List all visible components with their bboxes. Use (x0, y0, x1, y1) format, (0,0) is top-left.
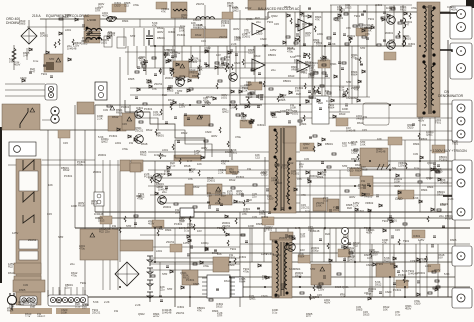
svg-text:47K: 47K (350, 254, 355, 258)
warning triangle (320, 267, 325, 271)
warning triangle (56, 58, 61, 62)
svg-text:D612Q601: D612Q601 (305, 60, 312, 67)
svg-text:D613: D613 (8, 271, 15, 275)
svg-text:FB601PC601: FB601PC601 (445, 214, 454, 221)
component box (182, 270, 198, 285)
wire h (240, 243, 470, 245)
wire h (95, 211, 470, 213)
component box (173, 61, 189, 77)
svg-text:100K: 100K (440, 203, 446, 207)
wire h (140, 234, 245, 236)
wire v (204, 212, 206, 247)
driver coils (403, 18, 406, 28)
comb wire (357, 5, 359, 46)
svg-text:22u: 22u (70, 262, 75, 266)
page edge bar (0, 127, 2, 283)
svg-text:400V: 400V (434, 268, 440, 272)
wire h (150, 261, 470, 263)
svg-text:125V: 125V (270, 48, 276, 52)
transistor (158, 196, 167, 205)
svg-text:5.6K: 5.6K (330, 42, 336, 46)
svg-text:5.6K: 5.6K (313, 70, 319, 74)
svg-text:FB601: FB601 (283, 79, 291, 83)
comb wire (285, 12, 287, 46)
wire v (134, 171, 136, 228)
wire h (240, 85, 360, 87)
svg-text:T901: T901 (80, 281, 87, 285)
svg-text:DENOMINATOR: DENOMINATOR (438, 94, 464, 98)
svg-text:100K5.6K: 100K5.6K (230, 103, 236, 110)
comb wire (371, 244, 373, 297)
svg-text:GND: GND (395, 197, 403, 201)
wire v (47, 130, 49, 297)
junction dots (189, 104, 191, 106)
wire h (8, 164, 142, 166)
wire v (94, 105, 96, 212)
svg-text:1N4148: 1N4148 (94, 212, 104, 216)
svg-text:PC601: PC601 (64, 174, 73, 178)
label chip (112, 4, 126, 12)
svg-text:0.1u: 0.1u (414, 166, 420, 170)
comb wire (335, 228, 337, 262)
connector CN A (450, 6, 472, 39)
svg-text:Q601: Q601 (342, 285, 349, 289)
svg-text:125VC620: 125VC620 (351, 148, 358, 155)
svg-text:2SC51: 2SC51 (351, 86, 360, 90)
relay coil box (95, 82, 107, 100)
svg-text:R612: R612 (181, 131, 188, 135)
svg-text:470u: 470u (133, 3, 139, 7)
component box (120, 160, 130, 171)
strap box innards (46, 62, 54, 70)
wire v (174, 16, 176, 61)
small ic mid (180, 208, 194, 217)
svg-text:L601: L601 (156, 249, 162, 253)
comb wire (294, 12, 296, 46)
svg-text:0.470.1u: 0.470.1u (164, 169, 170, 176)
wire v (264, 5, 266, 126)
svg-text:T901: T901 (382, 219, 389, 223)
wire h (40, 18, 268, 20)
wire h (245, 62, 310, 64)
svg-text:2.2KL601: 2.2KL601 (333, 205, 339, 212)
wire v (299, 161, 301, 212)
label chip (100, 216, 112, 224)
coil N (23, 160, 34, 170)
svg-text:D605: D605 (335, 285, 342, 289)
svg-text:5.6K: 5.6K (402, 269, 408, 273)
CN pins (51, 107, 59, 115)
transistor (176, 78, 185, 87)
svg-text:C33: C33 (232, 172, 237, 176)
wire v (309, 218, 311, 264)
svg-text:5.6K: 5.6K (413, 196, 419, 200)
svg-text:400VR618: 400VR618 (78, 201, 85, 208)
diode column D90x (147, 256, 153, 302)
wire v (254, 46, 256, 95)
svg-text:L601400V: L601400V (324, 298, 330, 305)
svg-text:IC601: IC601 (168, 30, 176, 34)
svg-text:Q602: Q602 (138, 312, 145, 316)
label chip (222, 12, 233, 19)
wire v (26, 48, 28, 60)
wire v (45, 19, 47, 54)
svg-text:10K: 10K (197, 162, 202, 166)
svg-text:ZD601: ZD601 (417, 271, 426, 275)
svg-text:D605: D605 (364, 253, 371, 257)
transformer T902 (270, 232, 293, 240)
svg-text:T901: T901 (368, 17, 375, 21)
svg-text:470u: 470u (411, 6, 417, 10)
component box (131, 160, 143, 171)
svg-text:R22: R22 (239, 114, 244, 118)
svg-text:R604400V: R604400V (153, 312, 160, 317)
svg-text:470u: 470u (275, 110, 281, 114)
component box (327, 199, 339, 212)
svg-text:16VC33: 16VC33 (342, 141, 347, 148)
relay switch lever (20, 108, 28, 128)
comb wire (415, 244, 417, 297)
wire h (330, 130, 470, 132)
svg-text:100K: 100K (248, 224, 254, 228)
svg-text:125V2.2K: 125V2.2K (353, 201, 359, 208)
comb wire (133, 28, 135, 46)
svg-text:16V: 16V (272, 239, 277, 243)
svg-text:L601: L601 (317, 32, 323, 36)
svg-text:47K: 47K (301, 193, 306, 197)
component box (209, 195, 232, 205)
comb wire (321, 46, 323, 97)
svg-text:470u470u: 470u470u (204, 100, 210, 107)
svg-text:R22: R22 (325, 232, 330, 236)
svg-text:R604: R604 (122, 19, 129, 23)
svg-text:125V400V: 125V400V (179, 216, 185, 223)
svg-text:R612: R612 (63, 168, 70, 172)
svg-text:2SC51: 2SC51 (28, 238, 37, 242)
svg-text:BALANCED RECOLOR AC: BALANCED RECOLOR AC (258, 7, 300, 11)
svg-text:R22: R22 (247, 198, 252, 202)
comb wire (426, 244, 428, 297)
svg-text:400V: 400V (394, 184, 400, 188)
comb wire (163, 28, 165, 46)
svg-text:1W: 1W (361, 179, 365, 183)
svg-text:PC601: PC601 (398, 273, 407, 277)
svg-text:PC601: PC601 (109, 134, 118, 138)
svg-text:2.2K: 2.2K (104, 300, 110, 304)
svg-text:Q602T901: Q602T901 (266, 225, 273, 232)
svg-text:400V: 400V (157, 30, 163, 34)
svg-text:Q602: Q602 (271, 14, 278, 18)
comb wire (321, 12, 323, 46)
svg-text:0.47: 0.47 (136, 194, 142, 198)
coil N (23, 192, 34, 202)
svg-text:STR: STR (167, 287, 172, 291)
filter cap C15 (146, 30, 153, 46)
wire h (5, 83, 45, 85)
svg-text:100K2.2K: 100K2.2K (97, 114, 103, 121)
svg-text:0.47: 0.47 (326, 99, 332, 103)
label chip (152, 220, 164, 228)
transistor (229, 73, 238, 82)
wire v (267, 12, 269, 19)
wire v (154, 161, 156, 262)
svg-text:R604: R604 (427, 185, 434, 189)
wire v (339, 46, 341, 112)
svg-text:DHOMW: DHOMW (6, 21, 20, 25)
wire h (360, 168, 470, 170)
label chip (336, 118, 348, 126)
svg-text:T901: T901 (230, 247, 237, 251)
wire v (119, 171, 121, 262)
wire h (195, 276, 455, 278)
bus stair-step (125, 100, 232, 160)
label chip (384, 52, 396, 60)
wire h (150, 269, 240, 271)
bridge rectifier D901 (21, 28, 37, 44)
component box (185, 184, 193, 195)
svg-text:ZD601: ZD601 (221, 19, 230, 23)
svg-text:D612470u: D612470u (71, 271, 78, 278)
comb wire (163, 46, 165, 75)
op-amp (252, 59, 265, 71)
inline coil 2 (196, 17, 214, 19)
svg-text:FB601PC601: FB601PC601 (439, 155, 448, 162)
svg-text:C15: C15 (303, 146, 308, 150)
comb wire (384, 5, 386, 46)
wire h (75, 227, 470, 229)
comb wire (190, 46, 192, 68)
svg-text:215 A: 215 A (32, 14, 41, 18)
wire h (95, 217, 470, 219)
svg-text:T901R604: T901R604 (328, 103, 335, 110)
svg-text:STR: STR (130, 34, 135, 38)
label chip (170, 244, 182, 252)
svg-text:16V: 16V (197, 229, 202, 233)
svg-text:125V: 125V (183, 241, 189, 245)
label chip (318, 60, 330, 68)
svg-text:T901: T901 (354, 14, 361, 18)
svg-text:470uC620: 470uC620 (414, 299, 421, 306)
connector CN E (452, 246, 472, 266)
wire v (339, 170, 341, 212)
component box (77, 102, 94, 114)
wire h (240, 103, 465, 105)
connector CN B (450, 43, 472, 79)
thermistor (12, 48, 16, 62)
wire v (454, 118, 456, 297)
svg-text:1000p: 1000p (201, 241, 209, 245)
warning triangle (30, 108, 35, 112)
svg-text:ZD601: ZD601 (385, 31, 394, 35)
svg-text:L601470u: L601470u (79, 244, 85, 251)
AC plug (7, 295, 16, 304)
comb wire (153, 28, 155, 46)
comb wire (235, 46, 237, 75)
svg-text:R22: R22 (318, 101, 323, 105)
component box (84, 15, 100, 30)
svg-text:Q602: Q602 (426, 176, 433, 180)
svg-text:47K: 47K (30, 305, 35, 309)
wire h (130, 160, 470, 162)
svg-text:T901470u: T901470u (243, 267, 250, 274)
svg-text:D612: D612 (157, 26, 164, 30)
svg-text:L601: L601 (162, 148, 168, 152)
svg-text:L601: L601 (65, 28, 71, 32)
bridge rectifier D902 (115, 262, 139, 286)
svg-text:STR: STR (49, 57, 54, 61)
svg-text:VR602: VR602 (287, 234, 296, 238)
wire v (249, 228, 251, 297)
transistor (387, 41, 396, 50)
regulator box (312, 96, 329, 124)
wire h (150, 194, 455, 196)
svg-text:D613: D613 (224, 279, 231, 283)
label chip (248, 82, 262, 90)
svg-text:5.6K0.1u: 5.6K0.1u (184, 226, 190, 233)
svg-text:C15: C15 (47, 212, 52, 216)
wire h (55, 296, 470, 298)
comb wire (173, 28, 175, 46)
comb wire (382, 244, 384, 297)
svg-text:L601: L601 (23, 301, 29, 305)
wire h (150, 45, 412, 47)
warning triangle (110, 106, 115, 110)
wire h (130, 94, 260, 96)
wire v (174, 262, 176, 307)
svg-text:2.2K: 2.2K (314, 40, 320, 44)
svg-text:D612: D612 (212, 251, 219, 255)
svg-text:470u: 470u (135, 113, 141, 117)
wire v (189, 212, 191, 307)
svg-text:R618: R618 (287, 46, 294, 50)
svg-text:D605: D605 (279, 98, 286, 102)
component box (213, 257, 229, 272)
wire h (330, 4, 412, 6)
svg-text:R618: R618 (141, 142, 148, 146)
component box (360, 176, 373, 196)
svg-text:PC601: PC601 (266, 252, 275, 256)
warning triangle (127, 117, 132, 121)
bottom mid pins (341, 227, 348, 234)
svg-text:0.47: 0.47 (187, 159, 193, 163)
comb wire (299, 228, 301, 262)
comb wire (275, 228, 277, 262)
svg-text:D605R612: D605R612 (140, 150, 147, 157)
svg-text:0.470.1u: 0.470.1u (302, 22, 308, 29)
wire h (95, 104, 262, 106)
svg-text:R604: R604 (300, 122, 307, 126)
svg-text:FB601: FB601 (157, 36, 165, 40)
wire v (324, 46, 326, 112)
connector fan (48, 290, 85, 297)
warning triangle (197, 115, 202, 119)
svg-text:R604: R604 (212, 309, 219, 313)
svg-text:IC601: IC601 (375, 3, 383, 7)
svg-text:0.47: 0.47 (311, 92, 317, 96)
wire v (28, 20, 30, 29)
svg-text:R22: R22 (162, 93, 167, 97)
svg-text:2.2K: 2.2K (135, 303, 141, 307)
svg-text:D613: D613 (168, 98, 175, 102)
svg-text:16V: 16V (179, 226, 184, 230)
svg-text:2SC51: 2SC51 (196, 2, 205, 6)
op-amp (297, 60, 310, 72)
wire v (311, 46, 313, 95)
svg-text:47K: 47K (188, 177, 193, 181)
comb wire (359, 228, 361, 262)
wire v (229, 5, 231, 157)
svg-text:STR: STR (58, 235, 63, 239)
svg-text:R22: R22 (347, 206, 352, 210)
component box (80, 229, 118, 260)
comb wire (347, 228, 349, 262)
wire v (351, 46, 353, 104)
svg-text:R22: R22 (255, 16, 260, 20)
svg-text:470uR604: 470uR604 (298, 252, 305, 259)
wire h (148, 185, 470, 187)
svg-text:R604: R604 (421, 188, 428, 192)
svg-text:400VR618: 400VR618 (91, 199, 98, 206)
component box (130, 163, 141, 172)
svg-text:D612: D612 (193, 185, 200, 189)
wire v (447, 40, 449, 297)
comb wire (312, 12, 314, 46)
svg-text:R612: R612 (245, 6, 252, 10)
svg-text:L601: L601 (115, 141, 121, 145)
component box (207, 184, 222, 194)
label chip (298, 255, 310, 263)
label chip (350, 168, 362, 176)
svg-text:R604R604: R604R604 (351, 70, 358, 77)
transformer T901 (269, 126, 296, 213)
svg-text:C620D605: C620D605 (234, 35, 241, 42)
transistor (135, 110, 144, 119)
svg-text:T901: T901 (377, 262, 384, 266)
svg-text:SG: SG (392, 166, 397, 170)
svg-text:470u: 470u (203, 264, 209, 268)
svg-text:Q602: Q602 (423, 5, 430, 9)
svg-text:5.6K: 5.6K (444, 272, 450, 276)
comb wire (253, 46, 255, 75)
svg-text:10K: 10K (390, 262, 395, 266)
CN902 comb (52, 287, 54, 295)
wire v (159, 262, 161, 297)
svg-text:R612: R612 (229, 178, 236, 182)
svg-text:R22: R22 (138, 56, 143, 60)
svg-text:100KT901: 100KT901 (452, 139, 459, 146)
svg-text:Q601T901: Q601T901 (181, 13, 188, 20)
transistor (153, 174, 162, 183)
wire h (360, 182, 470, 184)
svg-text:47K: 47K (297, 177, 302, 181)
comb wire (312, 46, 314, 97)
svg-text:C33: C33 (252, 215, 257, 219)
comb wire (357, 46, 359, 97)
connector CN901 (20, 296, 37, 305)
wire h (240, 77, 330, 79)
comb wire (339, 46, 341, 97)
wire h (150, 257, 240, 259)
svg-text:C620: C620 (260, 37, 267, 41)
wire v (354, 212, 356, 287)
svg-text:R220.47: R220.47 (30, 67, 36, 74)
svg-text:IC601: IC601 (408, 42, 416, 46)
svg-text:0.1u: 0.1u (180, 24, 186, 28)
svg-text:22u: 22u (162, 190, 167, 194)
svg-text:STR: STR (161, 154, 166, 158)
svg-text:400V: 400V (233, 27, 239, 31)
wire h (190, 252, 455, 254)
